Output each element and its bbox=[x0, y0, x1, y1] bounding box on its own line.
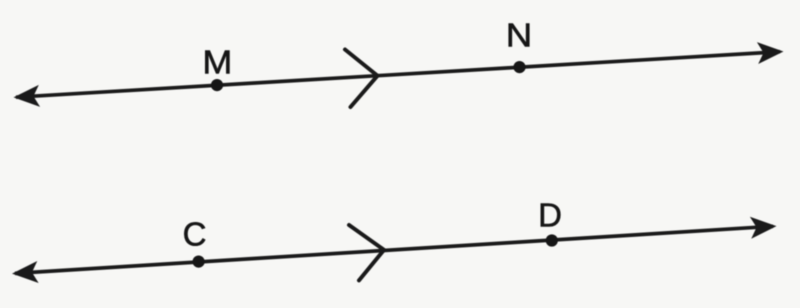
node point M bbox=[211, 79, 223, 91]
wire line CD shaft bbox=[15, 226, 773, 273]
svg-text:N: N bbox=[506, 17, 533, 54]
node point N bbox=[513, 61, 525, 73]
svg-text:C: C bbox=[183, 216, 207, 253]
svg-text:D: D bbox=[538, 196, 562, 233]
node chevron tick on line MN bbox=[345, 50, 378, 108]
node arrowhead left of line MN bbox=[13, 85, 40, 109]
node point D bbox=[546, 234, 558, 246]
node arrowhead left of line CD bbox=[11, 261, 38, 285]
svg-text:M: M bbox=[202, 44, 232, 81]
node point C bbox=[193, 256, 205, 268]
node arrowhead right of line CD bbox=[750, 215, 777, 239]
wire line MN shaft bbox=[16, 52, 780, 97]
node chevron tick on line CD bbox=[349, 225, 384, 280]
node arrowhead right of line MN bbox=[757, 41, 784, 65]
